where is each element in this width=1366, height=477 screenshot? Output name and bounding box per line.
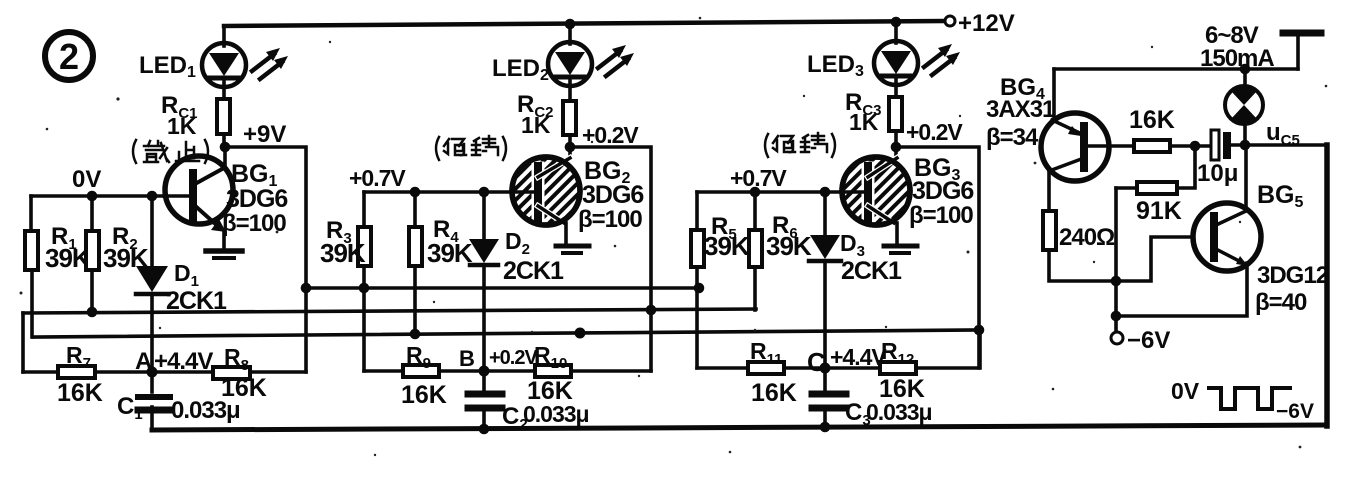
- svg-text:A: A: [135, 348, 152, 375]
- wire right frame: [1324, 145, 1330, 426]
- svg-text:240Ω: 240Ω: [1059, 224, 1115, 251]
- svg-text:0V: 0V: [1171, 378, 1200, 404]
- svg-text:3AX31: 3AX31: [986, 96, 1055, 123]
- capacitor C3: [812, 394, 846, 428]
- diode D2: [469, 192, 499, 392]
- node +9V: [220, 142, 231, 153]
- ground BG3: [884, 223, 917, 253]
- node uc5 junction: [1240, 140, 1251, 151]
- svg-text:B: B: [459, 346, 475, 371]
- LED3 emission arrows: [924, 44, 960, 75]
- ground BG1: [206, 230, 242, 258]
- resistor R8: [152, 367, 306, 379]
- svg-text:−6V: −6V: [1127, 327, 1170, 354]
- resistor R10: [484, 365, 651, 377]
- svg-text:1K: 1K: [849, 109, 879, 135]
- svg-text:+0.7V: +0.7V: [349, 165, 406, 191]
- svg-text:39K: 39K: [704, 231, 750, 261]
- resistor RC3: [889, 97, 902, 147]
- LED D3 (LED3): [874, 17, 918, 97]
- wire line1 left drop to R7 row: [21, 313, 25, 372]
- svg-text:β=40: β=40: [1255, 289, 1307, 316]
- diode D3: [809, 192, 841, 392]
- svg-text:3DG6: 3DG6: [226, 185, 287, 213]
- svg-text:0.033μ: 0.033μ: [523, 401, 589, 427]
- resistor 240ohm: [1043, 171, 1193, 281]
- svg-text:β=100: β=100: [578, 206, 642, 233]
- node C: [820, 363, 831, 374]
- label cutoff (jie zhi): [133, 140, 208, 163]
- svg-text:16K: 16K: [57, 379, 103, 407]
- wire stage1 collector box: [225, 147, 306, 372]
- capacitor C2: [468, 394, 502, 429]
- resistor R2: [86, 196, 99, 312]
- capacitor 10u: [1211, 130, 1245, 160]
- terminal -6V: [1111, 327, 1170, 354]
- wire top +12V rail: [224, 21, 944, 26]
- LED2 emission arrows: [598, 45, 634, 76]
- terminal 6~8V supply: [1283, 33, 1321, 69]
- resistor RC1: [217, 99, 230, 147]
- wire stage3 collector box: [896, 147, 979, 368]
- transistor BG5: [1116, 145, 1261, 316]
- svg-text:39K: 39K: [427, 238, 473, 268]
- wire bias column: [1114, 188, 1118, 332]
- svg-text:16K: 16K: [401, 381, 447, 409]
- svg-text:16K: 16K: [751, 379, 797, 407]
- wire to right frame: [1245, 143, 1327, 147]
- LED D2 (LED2): [548, 19, 592, 101]
- svg-text:39K: 39K: [320, 238, 366, 268]
- svg-text:C: C: [807, 347, 826, 377]
- label saturated (bao he) stage3: [765, 133, 835, 157]
- wire stage3 base rail: [697, 190, 843, 194]
- svg-text:β=100: β=100: [909, 202, 973, 229]
- resistor R7: [23, 366, 152, 378]
- svg-text:+12V: +12V: [958, 10, 1015, 37]
- node A: [147, 367, 158, 378]
- wire bus line1: [23, 309, 756, 313]
- svg-text:+0.2V: +0.2V: [489, 347, 538, 369]
- wire stage2 base rail: [364, 190, 512, 194]
- node B: [479, 366, 490, 377]
- svg-text:0.033μ: 0.033μ: [866, 399, 932, 425]
- diode D1: [136, 196, 168, 392]
- transistor BG2 (saturated, hatched): [512, 147, 580, 225]
- wire bottom rail: [152, 425, 1327, 430]
- resistor RC2: [563, 101, 576, 147]
- figure label 2: [45, 32, 93, 80]
- svg-text:3DG12: 3DG12: [1257, 262, 1329, 289]
- svg-text:−6V: −6V: [1276, 400, 1314, 423]
- C3 label: [820, 422, 831, 433]
- wire stage2 collector box: [570, 147, 651, 371]
- LED1 emission arrows: [252, 48, 288, 79]
- svg-text:39K: 39K: [766, 231, 812, 261]
- LED D1 (LED1): [202, 26, 246, 99]
- resistor 16K (BG4 base): [1109, 140, 1211, 152]
- node +0.2V stage3: [891, 142, 902, 153]
- resistor R4: [409, 192, 422, 334]
- svg-text:0.033μ: 0.033μ: [171, 397, 240, 424]
- svg-text:10μ: 10μ: [1197, 160, 1238, 187]
- svg-text:+9V: +9V: [243, 121, 286, 148]
- wire bus line0: [306, 286, 699, 290]
- label saturated (bao he) stage2: [436, 136, 506, 160]
- resistor 91K: [1116, 146, 1195, 194]
- svg-text:150mA: 150mA: [1200, 45, 1274, 72]
- svg-text:2CK1: 2CK1: [503, 257, 564, 285]
- svg-text:0V: 0V: [72, 166, 101, 193]
- node +0.2V stage2: [565, 142, 576, 153]
- resistor R9: [364, 365, 484, 377]
- wire stage1 base rail: [31, 194, 164, 198]
- resistor R11: [697, 362, 825, 374]
- svg-text:91K: 91K: [1136, 197, 1182, 225]
- resistor R1: [25, 196, 38, 337]
- capacitor C1: [138, 397, 170, 430]
- ground BG2: [556, 223, 589, 253]
- svg-text:β=34: β=34: [986, 124, 1039, 151]
- resistor R3: [358, 192, 371, 371]
- svg-text:+0.2V: +0.2V: [582, 122, 639, 148]
- resistor R5: [691, 192, 704, 368]
- wire right supply rail: [1054, 67, 1298, 71]
- svg-text:+0.7V: +0.7V: [730, 165, 787, 191]
- waveform square wave: [1209, 388, 1290, 409]
- svg-text:3DG6: 3DG6: [582, 181, 643, 209]
- resistor R6: [749, 192, 762, 310]
- svg-text:1K: 1K: [521, 112, 551, 138]
- svg-text:1K: 1K: [167, 113, 197, 139]
- svg-text:2CK1: 2CK1: [841, 257, 902, 285]
- wire bus line2: [33, 330, 979, 337]
- C2 label: [479, 424, 490, 435]
- transistor BG3 (saturated, hatched): [842, 147, 910, 225]
- resistor R12: [825, 330, 980, 374]
- svg-text:3DG6: 3DG6: [912, 177, 973, 205]
- lamp U: [1225, 69, 1263, 145]
- svg-text:16K: 16K: [1129, 106, 1175, 134]
- svg-text:2: 2: [59, 36, 79, 77]
- svg-text:+0.2V: +0.2V: [906, 119, 963, 145]
- transistor BG4: [1041, 69, 1109, 181]
- terminal +12V: [945, 10, 1015, 37]
- transistor BG1: [164, 147, 233, 232]
